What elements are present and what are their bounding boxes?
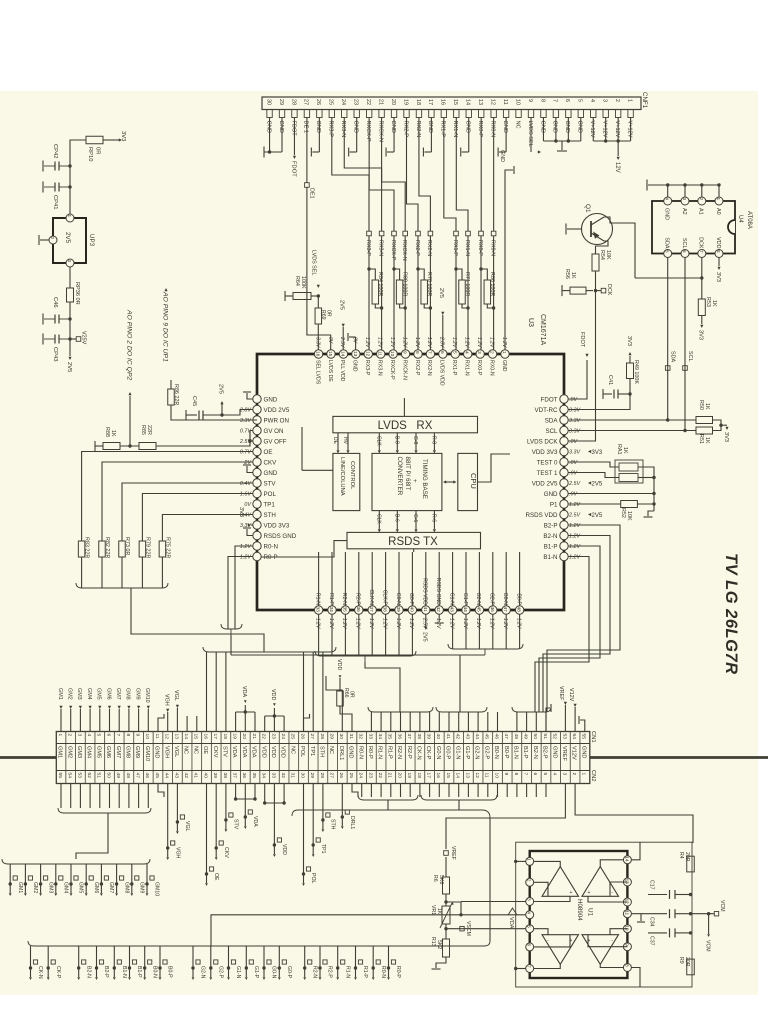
- svg-text:15: 15: [193, 734, 199, 740]
- svg-text:22: 22: [377, 773, 383, 779]
- node 2V5 arrow bottom: [68, 357, 71, 360]
- wire control net to CN1 pin 17: [215, 652, 217, 732]
- arrow converter to RSDS TX R-6: [433, 511, 435, 529]
- wire CN2 cell 41 drop to bus: [448, 784, 450, 798]
- svg-text:B0-N: B0-N: [502, 593, 508, 605]
- resistor R51 1K: [696, 427, 713, 434]
- svg-text:GM8: GM8: [125, 746, 131, 758]
- svg-text:GND: GND: [580, 746, 586, 758]
- svg-text:NC: NC: [192, 746, 198, 754]
- ground CN1 pin26: [304, 714, 310, 732]
- svg-text:10: 10: [493, 773, 499, 779]
- svg-text:15: 15: [327, 351, 333, 357]
- svg-text:RSDS VDD: RSDS VDD: [526, 512, 559, 519]
- svg-text:CLK-N: CLK-N: [368, 589, 374, 605]
- testpoint VGH: [167, 784, 169, 849]
- svg-text:25: 25: [348, 773, 354, 779]
- node RX2-P pad: [416, 231, 421, 236]
- wire RX1-N pad to U3: [467, 236, 469, 351]
- svg-text:23: 23: [353, 99, 359, 105]
- svg-text:52: 52: [86, 773, 92, 779]
- svg-text:GV OFF: GV OFF: [264, 438, 287, 445]
- svg-text:5: 5: [527, 925, 532, 928]
- svg-text:RX2-N: RX2-N: [415, 121, 421, 138]
- wire RSDS TX left internal: [261, 541, 347, 557]
- wire CN2 GM8 drop: [128, 784, 130, 809]
- svg-text:12: 12: [489, 99, 495, 105]
- wire B net 2: [543, 536, 610, 713]
- ground CNF1 pin 17: [430, 118, 432, 148]
- svg-text:2V5: 2V5: [592, 482, 603, 488]
- wire amp B out: [600, 860, 623, 867]
- wire fan to CN1 pin 35: [390, 712, 392, 732]
- svg-text:1.2V: 1.2V: [501, 337, 507, 348]
- ground stub on C34 line: [640, 914, 642, 921]
- svg-text:GND: GND: [265, 121, 271, 133]
- ic U1 pin 14: [623, 856, 631, 864]
- svg-text:GND: GND: [390, 121, 396, 133]
- wire control net to CN1 pin 16: [206, 652, 208, 732]
- svg-text:R49 100K: R49 100K: [633, 360, 639, 384]
- wire U3 pin 38 drop: [385, 614, 387, 656]
- wire CN2 GM5 drop: [99, 784, 101, 809]
- svg-text:GND: GND: [348, 746, 354, 758]
- node SDA pad: [665, 366, 670, 371]
- wire CN2 GM6 drop: [109, 784, 111, 809]
- svg-text:R53: R53: [705, 297, 711, 307]
- connector cell separator 12: [172, 732, 174, 784]
- svg-text:40: 40: [408, 607, 414, 613]
- testpoint GM8: [116, 864, 118, 884]
- connector CNF1 pin 13 stub: [479, 110, 484, 118]
- svg-text:39: 39: [212, 773, 218, 779]
- svg-text:11: 11: [154, 734, 160, 739]
- opamp C triangle: [542, 935, 579, 965]
- svg-text:B2-N: B2-N: [532, 746, 538, 759]
- wire CN2 cell 45 drop to bus: [487, 784, 489, 798]
- svg-text:16: 16: [435, 773, 441, 779]
- svg-text:8: 8: [539, 99, 545, 102]
- svg-text:NC: NC: [514, 121, 520, 129]
- wire amp D in2: [588, 935, 627, 947]
- svg-text:GM4: GM4: [86, 688, 92, 700]
- svg-text:7: 7: [699, 250, 704, 253]
- ic U3 right pin GND: [560, 489, 568, 497]
- testpoint B2-N: [78, 946, 80, 968]
- capacitor C45: [185, 410, 187, 420]
- node DCK pad: [596, 290, 602, 292]
- svg-text:1.2V: 1.2V: [401, 337, 407, 348]
- svg-text:30: 30: [299, 773, 305, 779]
- bus brace bottom rail: [28, 941, 490, 946]
- svg-text:GM2: GM2: [66, 746, 72, 758]
- svg-text:6: 6: [105, 734, 111, 737]
- node 2V5 flag RSDS VDD: [588, 513, 591, 516]
- svg-text:1.2V: 1.2V: [240, 555, 252, 561]
- svg-text:POL: POL: [299, 746, 305, 757]
- svg-text:44: 44: [462, 607, 468, 613]
- wire U3 internal pin 44: [465, 552, 467, 606]
- capacitor C34: [666, 913, 668, 915]
- ic U3 left pin 25 STV: [253, 479, 261, 487]
- junction VSCM: [444, 927, 447, 930]
- wire fan to CN1 pin 39: [429, 712, 431, 732]
- ground CN1 pin52 stub: [546, 708, 550, 732]
- svg-text:12: 12: [364, 351, 370, 357]
- wire RX2-P pad to U3: [417, 236, 419, 351]
- resistor R56 1K: [561, 285, 563, 296]
- svg-text:12: 12: [164, 734, 170, 740]
- svg-text:14: 14: [183, 734, 189, 740]
- svg-text:13: 13: [464, 773, 470, 779]
- svg-text:16: 16: [315, 351, 321, 357]
- svg-text:6: 6: [527, 944, 532, 947]
- svg-text:21: 21: [387, 773, 393, 779]
- svg-text:6: 6: [439, 351, 445, 354]
- wire U1 pin7 to loop: [516, 968, 526, 970]
- ic U3 left pin 28 STH: [253, 510, 261, 518]
- wire U4 VDD pin8 to 3V3: [718, 258, 720, 267]
- svg-text:R0-P: R0-P: [395, 966, 401, 978]
- testpoint R2-P: [319, 946, 321, 968]
- svg-text:RX2-P: RX2-P: [414, 240, 420, 256]
- resistor R4 20R: [687, 856, 695, 872]
- svg-text:39: 39: [426, 734, 432, 740]
- wire RSDS TX bottom internal: [413, 549, 415, 552]
- svg-text:R50: R50: [698, 400, 704, 410]
- ic U4 pin 8 VDD: [715, 250, 723, 258]
- svg-text:TV LG 26LG7R: TV LG 26LG7R: [722, 553, 740, 675]
- svg-text:G0-N: G0-N: [395, 593, 401, 606]
- svg-text:43: 43: [464, 734, 470, 740]
- svg-text:GM1: GM1: [17, 882, 23, 893]
- wire U3 internal pin 43: [452, 552, 454, 606]
- svg-text:RP10: RP10: [87, 147, 93, 162]
- resistor R82 22R: [99, 541, 106, 557]
- ic U1 H08904 body: [530, 851, 628, 978]
- connector CNF1 pin 14 stub: [466, 110, 471, 118]
- wire CN2 cell 43 drop to bus: [467, 784, 469, 798]
- wire RX2-N pad to U3: [429, 236, 431, 351]
- svg-text:OE: OE: [264, 449, 273, 456]
- svg-text:RX0-N: RX0-N: [488, 360, 494, 376]
- testpoint GM10: [146, 864, 148, 884]
- svg-text:LVDS SEL: LVDS SEL: [311, 250, 317, 275]
- wire Q1 base terminal: [567, 228, 582, 230]
- svg-text:21: 21: [377, 99, 383, 105]
- junction gnd a: [554, 139, 557, 142]
- svg-text:SDA: SDA: [670, 351, 676, 362]
- svg-text:SDA: SDA: [664, 237, 670, 248]
- svg-text:29: 29: [278, 99, 284, 105]
- svg-text:54: 54: [571, 734, 577, 740]
- testpoint G1-P: [245, 946, 247, 968]
- wire Q1 emitter to R54: [596, 241, 609, 254]
- svg-text:21: 21: [251, 734, 257, 740]
- svg-text:26: 26: [315, 99, 321, 105]
- svg-text:R2-P: R2-P: [406, 746, 412, 759]
- connector cell separator 51: [550, 732, 552, 784]
- svg-text:VDD 3V3: VDD 3V3: [532, 449, 558, 456]
- wire fan to CN1 pin 46: [497, 712, 499, 732]
- resistor R80 100R: [396, 280, 403, 304]
- svg-text:R1-N: R1-N: [377, 746, 383, 759]
- svg-text:49: 49: [523, 734, 529, 740]
- resistor R86 100R: [484, 280, 491, 304]
- svg-text:13: 13: [352, 351, 358, 357]
- svg-text:2: 2: [571, 773, 577, 776]
- connector CNF1 pin 22 stub: [366, 110, 371, 118]
- svg-text:B1-P: B1-P: [136, 966, 142, 978]
- svg-text:RX3-N: RX3-N: [377, 240, 383, 256]
- svg-text:CKV: CKV: [264, 459, 278, 466]
- svg-text:3V3: 3V3: [120, 131, 126, 141]
- svg-text:B-8: B-8: [394, 436, 400, 444]
- wire R79 net from U3: [142, 494, 253, 542]
- svg-text:GM3: GM3: [47, 882, 53, 893]
- svg-text:24: 24: [358, 773, 364, 779]
- wire amp D out: [600, 964, 623, 967]
- svg-text:38: 38: [222, 773, 228, 779]
- testpoint R0-P: [388, 946, 390, 968]
- ic U1 pin 5: [526, 925, 534, 933]
- svg-text:VDD: VDD: [281, 844, 287, 855]
- svg-text:2V5: 2V5: [339, 300, 345, 310]
- svg-text:B1-N: B1-N: [513, 746, 519, 759]
- ground CNF1 pin 20: [393, 118, 395, 148]
- svg-text:CP41: CP41: [52, 195, 58, 210]
- svg-text:CN2: CN2: [590, 770, 596, 782]
- connector CNF1 pin 11 stub: [503, 110, 508, 118]
- ic U3 top pin 7: [426, 350, 434, 358]
- wire LVDS RX top feed: [403, 398, 405, 416]
- wire B net to CN1 pin 48: [516, 712, 518, 732]
- wire R0-P from U3: [228, 557, 253, 630]
- ground U3 left pin GND8: [247, 466, 253, 473]
- arrow LVDS RX to control HV: [337, 433, 339, 450]
- svg-text:2: 2: [614, 99, 620, 102]
- svg-text:R1-P: R1-P: [362, 966, 368, 978]
- wire bottom rail riser: [211, 915, 461, 946]
- svg-text:GND: GND: [664, 208, 670, 220]
- svg-text:27: 27: [309, 734, 315, 740]
- wire U3 pin 44 drop: [465, 614, 467, 649]
- node V25V pad: [70, 338, 76, 340]
- svg-text:VDD: VDD: [260, 746, 266, 758]
- svg-text:V+12V: V+12V: [602, 121, 608, 138]
- ground CNF1 pin30/29: [269, 118, 271, 153]
- connector cell separator 33: [375, 732, 377, 784]
- connector cell separator 20: [249, 732, 251, 784]
- resistor R78 100R: [421, 280, 428, 304]
- capacitor C46: [59, 318, 70, 320]
- ic U3 bottom pin 44 G1-P: [462, 606, 470, 614]
- connector CNF1 pin 4 stub: [591, 110, 596, 118]
- svg-text:SEL LVDS: SEL LVDS: [314, 360, 320, 385]
- connector cell separator 41: [453, 732, 455, 784]
- node FDOT flag from pin28: [293, 118, 295, 156]
- junction C37 rail: [689, 931, 692, 934]
- svg-text:19: 19: [232, 734, 238, 740]
- svg-text:44: 44: [474, 734, 480, 740]
- svg-text:FDOT: FDOT: [290, 121, 296, 137]
- svg-text:STH: STH: [264, 512, 276, 519]
- svg-text:43: 43: [173, 773, 179, 779]
- ic U3 top pin 8: [414, 350, 422, 358]
- svg-text:GM9: GM9: [134, 746, 140, 758]
- svg-text:39: 39: [395, 607, 401, 613]
- wire U3 internal pin 42: [438, 552, 440, 606]
- ic U1 pin 4: [526, 911, 534, 919]
- ic U3 right pin RSDS VDD: [560, 510, 568, 518]
- svg-text:1.2V: 1.2V: [426, 337, 432, 348]
- wire Q1 collector: [604, 217, 635, 278]
- junction DCK node: [594, 289, 597, 292]
- svg-text:A1: A1: [698, 208, 704, 215]
- svg-text:GM10: GM10: [154, 882, 160, 896]
- svg-text:R54: R54: [599, 250, 605, 260]
- svg-text:R85: R85: [140, 425, 146, 435]
- svg-text:GM10: GM10: [144, 688, 150, 703]
- svg-text:7: 7: [552, 99, 558, 102]
- bus brace fan right: [448, 644, 523, 649]
- svg-text:GND: GND: [278, 121, 284, 133]
- svg-text:0.7V: 0.7V: [240, 450, 252, 456]
- svg-text:37: 37: [232, 773, 238, 779]
- svg-text:GM1: GM1: [57, 688, 63, 700]
- resistor R88 1K: [94, 441, 96, 451]
- connector CNF1 pin 25 stub: [329, 110, 334, 118]
- node RX3-N pad: [379, 231, 384, 236]
- connector cell separator 29: [336, 732, 338, 784]
- svg-text:33: 33: [315, 607, 321, 613]
- wire fan to CN1 pin 37: [409, 712, 411, 732]
- connector cell separator 50: [540, 732, 542, 784]
- svg-text:35: 35: [387, 734, 393, 740]
- svg-text:13: 13: [173, 734, 179, 740]
- ground RSDS GND left: [247, 529, 253, 536]
- node 2V5 flag VDD2V5: [588, 481, 591, 484]
- arrow converter to RSDS TX B-6: [396, 511, 398, 529]
- arrow LVDS RX to converter CLK: [378, 433, 380, 450]
- wire U3 internal pin 37: [371, 552, 373, 606]
- svg-text:GM6: GM6: [105, 688, 111, 700]
- svg-text:V+12V: V+12V: [589, 121, 595, 138]
- svg-text:+: +: [588, 890, 591, 896]
- ic U3 top pin 13: [352, 350, 360, 358]
- ic U3 left pin 27 TP1: [253, 500, 261, 508]
- svg-text:3V3: 3V3: [698, 330, 704, 340]
- svg-text:R-6: R-6: [431, 514, 437, 522]
- svg-text:53: 53: [561, 734, 567, 740]
- svg-text:1K: 1K: [711, 300, 717, 307]
- capacitor CP41: [59, 186, 70, 188]
- wire control net to CN1 pin 18: [225, 652, 227, 732]
- svg-text:8: 8: [125, 734, 131, 737]
- wire fan to CN1 pin 36: [400, 712, 402, 732]
- svg-text:AT08A: AT08A: [746, 211, 752, 229]
- svg-text:45: 45: [154, 773, 160, 779]
- ic U3 left pin 32 R0-P: [253, 552, 261, 560]
- svg-text:AO PINO 2 DO IC QP2: AO PINO 2 DO IC QP2: [126, 309, 133, 380]
- ic U3 right pin SCL: [560, 426, 568, 434]
- testpoint R1-P: [355, 946, 357, 968]
- svg-text:RX3-N: RX3-N: [377, 360, 383, 376]
- svg-text:100K: 100K: [300, 276, 306, 289]
- svg-text:3.3V: 3.3V: [569, 429, 581, 435]
- testpoint GM7: [100, 864, 102, 884]
- arrow LVDS RX to control DE: [347, 433, 349, 450]
- node RX1-N pad: [466, 231, 471, 236]
- svg-text:RX0-P: RX0-P: [477, 121, 483, 138]
- svg-text:14: 14: [455, 773, 461, 779]
- svg-text:C34: C34: [649, 917, 655, 927]
- connector CNF1 pin 10 stub: [516, 110, 521, 118]
- svg-text:R4: R4: [678, 852, 684, 859]
- svg-text:8: 8: [414, 351, 420, 354]
- svg-text:34: 34: [261, 773, 267, 779]
- testpoint STH: [322, 784, 324, 821]
- wire VDA tie below: [235, 784, 237, 800]
- svg-text:54: 54: [67, 773, 73, 779]
- svg-text:GM7: GM7: [115, 688, 121, 700]
- wire SCL to U3: [568, 430, 696, 432]
- ic U1 pin 7: [526, 965, 534, 973]
- wire B net to CN1 pin 51: [545, 712, 547, 732]
- svg-text:4: 4: [464, 351, 470, 354]
- ic U3 bottom pin 36 R2-P: [355, 606, 363, 614]
- svg-text:G2-N: G2-N: [474, 746, 480, 759]
- svg-text:B2-P: B2-P: [542, 746, 548, 759]
- wire fan to CN1 pin 42: [458, 712, 460, 732]
- svg-text:4: 4: [552, 773, 558, 776]
- connector CNF1 pin 8 stub: [541, 110, 546, 118]
- wire CN2 GM10 drop: [147, 784, 149, 809]
- wire R75 net from U3: [162, 515, 253, 542]
- ic U3 right pin B2-P: [560, 521, 568, 529]
- svg-text:3V3: 3V3: [715, 272, 721, 282]
- svg-text:NC: NC: [183, 746, 189, 754]
- bus brace GM gather: [58, 808, 151, 813]
- svg-text:R64: R64: [294, 276, 300, 286]
- wire CN2 cell 47 drop to bus: [506, 784, 508, 798]
- svg-text:37: 37: [368, 607, 374, 613]
- svg-text:CKV: CKV: [212, 746, 218, 758]
- svg-text:CONTROL: CONTROL: [349, 461, 355, 490]
- arrow converter-cpu bidirectional: [445, 481, 455, 483]
- svg-text:V12V: V12V: [571, 746, 577, 760]
- testpoint OE: [206, 784, 208, 875]
- svg-text:2: 2: [489, 351, 495, 354]
- svg-text:14: 14: [339, 351, 345, 357]
- svg-text:50: 50: [532, 734, 538, 740]
- connector cell separator 6: [113, 732, 115, 784]
- wire U3 pin 34 drop: [331, 614, 333, 656]
- svg-text:11: 11: [502, 99, 508, 105]
- block CONVERTER 88IT P/68IT + TIMING BASE: [372, 453, 442, 510]
- svg-text:47: 47: [135, 773, 141, 779]
- connector cell separator 5: [104, 732, 106, 784]
- resistor R71 100R: [459, 280, 466, 304]
- svg-text:G1-P: G1-P: [462, 593, 468, 606]
- wire RX1-N from CNF1 pin 15: [456, 118, 468, 232]
- svg-text:3: 3: [527, 898, 532, 901]
- svg-text:CK-P: CK-P: [425, 746, 431, 760]
- svg-text:1.2V: 1.2V: [314, 618, 320, 629]
- connector cell separator 39: [433, 732, 435, 784]
- ground CNF1 pins5-8: [561, 141, 563, 150]
- wire UP3 supply vertical: [70, 140, 86, 214]
